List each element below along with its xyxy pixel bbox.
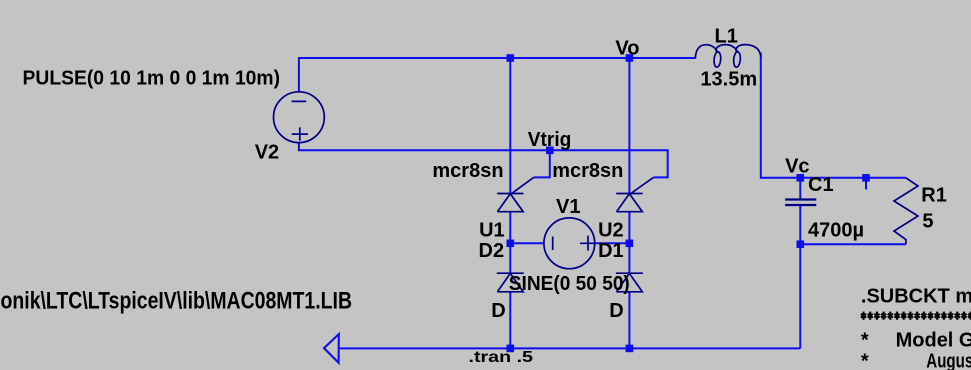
wire left branch lower	[509, 292, 511, 349]
label asterisk row	[861, 312, 971, 320]
svg-text:D: D	[491, 300, 505, 322]
svg-text:5: 5	[922, 211, 933, 233]
wire stub at node	[865, 178, 867, 190]
svg-text:Vo: Vo	[615, 37, 639, 59]
svg-text:mcr8sn: mcr8sn	[432, 160, 503, 182]
thyristor U2	[616, 177, 653, 211]
svg-text:.SUBCKT mcr8sn: .SUBCKT mcr8sn	[861, 285, 971, 307]
svg-text:Vtrig: Vtrig	[528, 129, 572, 151]
inductor L1 coil	[695, 45, 760, 59]
wire top rail	[299, 58, 696, 92]
svg-text:*: *	[861, 350, 869, 370]
junction C1 bottom	[797, 240, 805, 248]
svg-text:D1: D1	[598, 240, 624, 262]
wire C1 node down to rail	[799, 244, 801, 348]
junction node stub	[862, 174, 870, 182]
svg-text:13.5m: 13.5m	[700, 68, 757, 90]
svg-text:V1: V1	[556, 196, 580, 218]
svg-text:L1: L1	[715, 26, 738, 48]
svg-text:PULSE(0 10 1m 0 0 1m 10m): PULSE(0 10 1m 0 0 1m 10m)	[23, 67, 281, 89]
wire left branch upper	[509, 58, 511, 194]
voltage source V2	[274, 92, 325, 143]
svg-text:V2: V2	[255, 142, 279, 164]
junction Vtrig	[546, 147, 554, 155]
svg-text:D: D	[609, 300, 623, 322]
junction V1 left	[507, 240, 515, 248]
svg-text:C1: C1	[808, 174, 834, 196]
junction top left	[507, 54, 515, 62]
wire left branch mid	[509, 212, 511, 274]
wire bottom rail	[339, 347, 801, 349]
svg-text:U1: U1	[479, 219, 505, 241]
wire U1 gate drop	[534, 150, 550, 177]
resistor R1 zigzag	[894, 178, 918, 244]
svg-text:Model Gene: Model Gene	[896, 329, 971, 351]
junction Vo	[626, 54, 634, 62]
svg-text:*: *	[861, 329, 869, 351]
junction rail right	[626, 345, 634, 353]
wire right branch mid	[628, 212, 630, 274]
svg-text:R1: R1	[921, 185, 947, 207]
svg-text:4700µ: 4700µ	[808, 219, 864, 241]
junction Vc	[797, 174, 805, 182]
thyristor U1	[497, 177, 533, 211]
svg-text:onik\LTC\LTspiceIV\lib\MAC08MT: onik\LTC\LTspiceIV\lib\MAC08MT1.LIB	[1, 288, 353, 315]
capacitor C1 plates	[785, 198, 816, 200]
wire C1 bottom lead	[799, 206, 801, 244]
wire C1 top lead	[799, 178, 801, 199]
svg-text:D2: D2	[479, 240, 505, 262]
wire L1 output down to Vc node	[761, 53, 906, 178]
svg-text:SINE(0 50 50): SINE(0 50 50)	[509, 273, 630, 295]
port arrow	[324, 334, 339, 363]
wire V1 left	[510, 242, 544, 244]
junction V1 right	[626, 240, 634, 248]
wire V1 right	[594, 242, 629, 244]
wire right branch lower	[628, 292, 630, 349]
svg-text:Vc: Vc	[785, 155, 809, 177]
voltage source V1	[544, 218, 595, 269]
wire right branch upper	[628, 58, 630, 194]
svg-text:mcr8sn: mcr8sn	[552, 160, 623, 182]
diode D2	[497, 273, 524, 292]
svg-text:August: August	[926, 350, 971, 370]
junction rail left	[507, 345, 515, 353]
svg-text:.tran .5: .tran .5	[469, 349, 534, 366]
wire bottom mid C1 to R1	[800, 243, 906, 245]
diode D1	[616, 273, 643, 292]
wire V2 bottom to Vtrig rail	[299, 143, 668, 178]
svg-text:U2: U2	[598, 219, 624, 241]
